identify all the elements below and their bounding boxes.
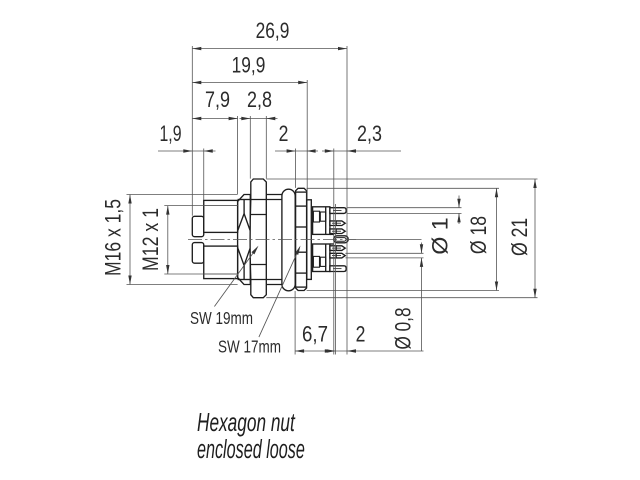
- svg-text:2,3: 2,3: [357, 122, 382, 146]
- svg-text:Hexagon nut: Hexagon nut: [197, 407, 295, 436]
- svg-text:Ø 18: Ø 18: [467, 216, 491, 254]
- svg-text:SW 19mm: SW 19mm: [190, 309, 253, 328]
- svg-text:2,8: 2,8: [247, 88, 272, 112]
- svg-text:M12 x 1: M12 x 1: [139, 208, 163, 271]
- svg-text:7,9: 7,9: [205, 88, 230, 112]
- svg-text:1,9: 1,9: [159, 122, 181, 146]
- svg-text:Ø 1: Ø 1: [428, 217, 452, 254]
- svg-text:26,9: 26,9: [256, 19, 290, 43]
- svg-text:enclosed loose: enclosed loose: [197, 434, 305, 464]
- svg-text:19,9: 19,9: [232, 53, 266, 77]
- svg-text:2: 2: [356, 323, 366, 347]
- svg-text:Ø 21: Ø 21: [508, 218, 532, 256]
- svg-text:Ø 0,8: Ø 0,8: [392, 307, 417, 349]
- svg-text:SW 17mm: SW 17mm: [218, 338, 281, 357]
- svg-text:2: 2: [279, 122, 289, 146]
- svg-text:M16 x 1,5: M16 x 1,5: [102, 199, 126, 276]
- svg-text:6,7: 6,7: [302, 323, 328, 347]
